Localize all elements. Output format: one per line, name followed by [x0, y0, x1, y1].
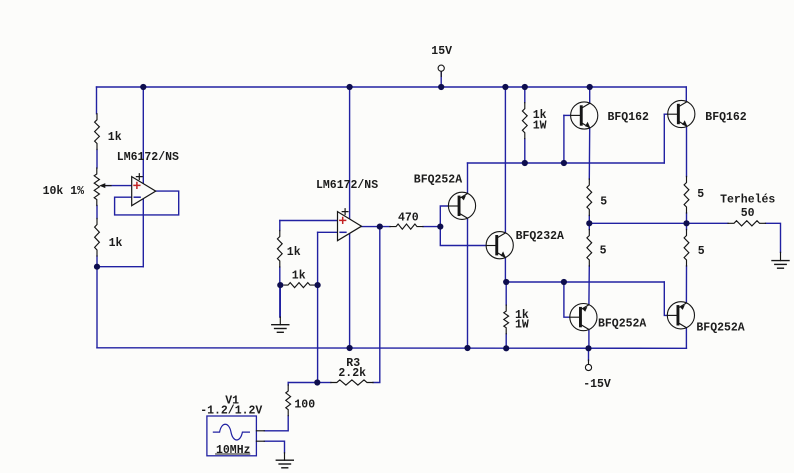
wire 1k1W b bottom — [505, 334, 507, 349]
node load row right — [683, 220, 689, 226]
potentiometer 10k 1% — [94, 168, 111, 206]
wire base node down to Q2 base — [440, 227, 486, 246]
svg-text:1k: 1k — [108, 131, 122, 144]
svg-text:BFQ162: BFQ162 — [705, 111, 747, 124]
resistor 5 (upper left) — [587, 179, 592, 216]
resistor 1k (top left) — [95, 114, 100, 150]
svg-text:10k 1%: 10k 1% — [43, 185, 85, 198]
resistor 1k (second left) — [95, 219, 100, 257]
node mid rail / Q3 base — [561, 160, 567, 166]
wire Q6 collector to bottom rail end — [685, 328, 687, 349]
wire Q4 emitter down — [686, 126, 688, 176]
underline 10MHz — [215, 453, 250, 455]
svg-text:BFQ252A: BFQ252A — [696, 322, 744, 335]
wire R1k horizontal node left vertical to ground — [279, 285, 281, 317]
node mid rail / 1k1W bottom — [522, 160, 528, 166]
wire +15V top rail — [97, 86, 687, 88]
ground (op2 bias node) — [272, 317, 289, 332]
svg-text:15V: 15V — [431, 45, 452, 58]
wire -in node down segments — [288, 382, 317, 384]
node op2 output — [377, 224, 383, 230]
wire left branch between pot and R2 — [96, 206, 98, 219]
wire op1 feedback loop — [115, 191, 179, 215]
svg-text:1W: 1W — [515, 319, 529, 332]
resistor 1k 1W (upper) — [522, 103, 527, 139]
node driver bases — [437, 224, 443, 230]
wire 1k1W b top — [505, 282, 507, 305]
node bottom rail / op2 power — [347, 345, 353, 351]
wire Q2 emitter down to -15V side node — [504, 258, 507, 283]
resistor 5 (upper right) — [684, 177, 689, 214]
wire Q1 collector down to bottom rail — [467, 218, 469, 348]
wire node row y=266.7 — [97, 266, 143, 268]
wire op2 +input — [280, 220, 338, 222]
svg-text:100: 100 — [294, 398, 315, 411]
wire drive rail y=282 — [506, 281, 664, 283]
wire load row y=223.3 — [589, 222, 728, 224]
node drive rail / Q5 base — [561, 279, 567, 285]
svg-text:BFQ162: BFQ162 — [608, 111, 650, 124]
wire Q5 base tap — [564, 282, 570, 317]
node op2 -input leg — [315, 282, 321, 288]
svg-text:1k: 1k — [292, 269, 306, 282]
svg-text:2.2k: 2.2k — [338, 367, 366, 380]
wire R5a to load node — [588, 216, 590, 230]
wire drive rail down to Q6 base — [664, 282, 667, 315]
V1 sine source box — [207, 416, 264, 456]
wire op1 power vertical x=143.3 — [142, 87, 144, 267]
svg-text:-15V: -15V — [583, 378, 611, 391]
wire R5c to load node — [686, 213, 688, 230]
svg-text:Terhelés: Terhelés — [720, 194, 775, 207]
resistor 5 (lower left) — [587, 230, 592, 267]
resistor 100 — [286, 385, 291, 416]
node load row left — [586, 220, 592, 226]
node top rail / 15V — [438, 84, 444, 90]
wire 1k1W a top — [524, 87, 526, 103]
node op2 bias/gnd — [277, 282, 283, 288]
transistor Q6 BFQ252A (PNP lower-right) — [667, 302, 694, 329]
transistor Q4 BFQ162 (NPN upper-right) — [668, 100, 695, 127]
svg-text:5: 5 — [600, 196, 607, 209]
svg-text:BFQ252A: BFQ252A — [598, 318, 646, 331]
svg-text:LM6172/NS: LM6172/NS — [316, 179, 378, 192]
svg-text:1k: 1k — [287, 246, 301, 259]
svg-text:470: 470 — [398, 211, 419, 224]
svg-text:10MHz: 10MHz — [216, 444, 251, 457]
transistor Q1 BFQ252A (PNP upper) — [448, 192, 475, 219]
svg-text:5: 5 — [600, 244, 607, 257]
node top rail / op2 power — [347, 84, 353, 90]
terminal 15V — [438, 65, 444, 76]
node feedback R3 — [314, 379, 320, 385]
wire op2 power vertical x=349.6 — [349, 87, 351, 348]
wire left branch x=97 top — [96, 87, 98, 114]
wire Q3 emitter down — [588, 128, 590, 179]
node bottom rail / -15V — [585, 345, 591, 351]
svg-text:LM6172/NS: LM6172/NS — [117, 151, 179, 164]
node left divider mid — [94, 264, 100, 270]
wire R3 left navy — [317, 382, 331, 384]
wire -15V terminal stub — [588, 348, 590, 360]
wire left branch between R1 and pot — [96, 150, 98, 169]
wire 100 resistor bottom to V1 — [264, 416, 288, 431]
wire pot wiper to op1 +input — [103, 185, 132, 187]
svg-text:-1.2/1.2V: -1.2/1.2V — [200, 404, 262, 417]
resistor 470 — [390, 224, 423, 229]
ground (load) — [772, 252, 789, 268]
wire base node up to Q1 base — [440, 206, 448, 227]
wire top rail right corner down to Q4 collector — [685, 87, 687, 102]
ground (V1 source) — [276, 453, 293, 468]
wire op2 +input bias branch lower to ground — [279, 267, 282, 317]
wire Q5 collector to bottom rail — [588, 330, 590, 349]
wire V1 minus to ground — [264, 441, 284, 453]
wire Q2 collector up to +15V rail — [504, 87, 506, 233]
resistor 1k (op2 +input bias) — [277, 231, 282, 268]
node drive rail / Q2 emitter — [503, 279, 509, 285]
wire output node down to R3 x=379.8 — [373, 227, 380, 383]
svg-text:1k: 1k — [109, 237, 123, 250]
svg-text:50: 50 — [741, 207, 755, 220]
transistor Q2 BFQ232A (NPN) — [486, 232, 513, 259]
wire op2 -input — [318, 231, 338, 233]
resistor 1k (horizontal, op2 -input) — [284, 283, 314, 288]
op-amp U2 LM6172/NS — [338, 209, 362, 241]
wire Q3 base tap — [563, 115, 565, 163]
wire op2 output to 470 — [362, 226, 391, 228]
wire op2 -input vertical x=317.6 — [317, 232, 319, 382]
op-amp U1 LM6172/NS — [132, 174, 156, 206]
wire 1k1W a bottom — [524, 139, 526, 163]
node top rail / 1k1W — [522, 84, 528, 90]
wire load right to ground corner — [766, 223, 781, 252]
wire -15V bottom rail — [97, 347, 686, 350]
transistor Q5 BFQ252A (PNP lower-left) — [570, 304, 597, 331]
resistor 50 (Terhelés load) — [728, 221, 766, 226]
wire Q3 base horizontal — [564, 114, 571, 116]
wire R5d to Q6 emitter — [685, 266, 687, 303]
wire Q3 collector to +15V — [589, 87, 591, 103]
terminal -15V — [585, 360, 591, 371]
node bottom rail / 1k1W — [503, 345, 509, 351]
wire mid rail y=163 — [468, 162, 665, 164]
node top rail / op1 power — [140, 84, 146, 90]
wire op2 +input bias branch upper — [279, 221, 281, 231]
node bottom rail / Q1 collector — [464, 345, 470, 351]
resistor 5 (lower right) — [684, 230, 689, 267]
wire 15V terminal stub — [440, 72, 442, 88]
wire Q4 base vertical — [663, 114, 665, 163]
wire 470 right to base node — [423, 226, 440, 228]
svg-text:BFQ232A: BFQ232A — [516, 230, 564, 243]
node top rail / Q2 collector — [502, 84, 508, 90]
resistor 1k 1W (lower) — [504, 305, 509, 334]
resistor R3 2.2k — [331, 380, 373, 385]
wire left branch below R2 down to bottom rail — [96, 256, 98, 348]
svg-text:5: 5 — [698, 245, 705, 258]
svg-text:BFQ252A: BFQ252A — [414, 174, 462, 187]
wire 100 resistor top — [287, 383, 289, 386]
svg-text:5: 5 — [697, 188, 704, 201]
wire Q4 base horizontal — [664, 113, 668, 115]
svg-text:1W: 1W — [533, 120, 547, 133]
transistor Q3 BFQ162 (NPN upper-left) — [571, 102, 598, 129]
wire R5b to Q5 emitter — [588, 266, 590, 305]
node top rail / Q3 collector — [587, 84, 593, 90]
wire Q1 emitter top to mid rail — [467, 163, 469, 194]
